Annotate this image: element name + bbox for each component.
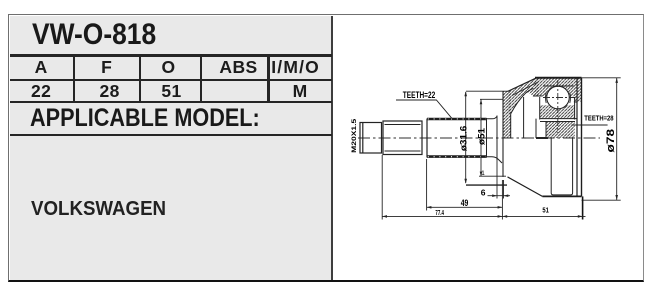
column line 2 [139,54,141,103]
shaft section [383,119,427,158]
header I/M/O [267,57,325,78]
ball centerline vertical [557,80,559,133]
label TEETH=28 [572,114,614,125]
right face hatch [577,78,582,102]
panel right divider [331,16,333,281]
svg-text:49: 49 [461,198,469,208]
threaded stub M20x1.5 [360,123,382,154]
dimension 49 [427,159,503,211]
dimension o51 [477,99,506,177]
spline shaft TEETH=22 [427,116,502,164]
column line 3 [200,54,202,103]
title VW-O-818 [32,18,156,52]
gray table panel [10,16,332,281]
inner race hatched [540,105,575,119]
svg-text:1: 1 [481,170,485,177]
dimension 51 body [502,196,585,219]
centerline [358,137,600,139]
row line under values [10,101,332,103]
row line under headers [10,79,332,81]
label APPLICABLE MODEL: [30,104,260,133]
boot groove band [551,138,572,195]
value M [270,81,331,102]
header F [75,57,139,78]
cage [533,86,577,120]
collar section hatched [503,91,511,177]
value 28 [78,81,142,102]
inner race hub hatched [546,122,575,139]
row line under applicable model [10,134,332,136]
dimension 77.4 [382,155,502,220]
svg-text:77.4: 77.4 [435,208,444,217]
row line under title [10,54,332,56]
svg-text:51: 51 [542,206,549,215]
header O [141,57,197,78]
column line 4 [267,54,269,103]
ball [547,86,570,109]
label VOLKSWAGEN [31,198,166,221]
label TEETH=22 [396,90,453,119]
svg-text:ø31.6: ø31.6 [458,126,468,152]
housing top band hatched [535,78,577,97]
bore line [522,97,527,138]
svg-text:6: 6 [481,188,486,198]
ball centerline horizontal [543,97,575,99]
svg-text:TEETH=28: TEETH=28 [584,114,613,123]
svg-text:ø78: ø78 [605,129,617,153]
value 22 [10,81,73,102]
svg-text:ø51: ø51 [477,128,487,145]
svg-text:M20X1.5: M20X1.5 [351,118,358,153]
dimension 6 [481,158,510,199]
dimension o78 [582,78,621,200]
header ABS [206,57,272,78]
column line 1 [73,54,75,103]
value 51 [144,81,200,102]
housing outline [508,78,582,197]
header A [10,57,73,78]
housing shoulder wedge hatched [508,78,539,114]
inner race lines [536,119,577,138]
svg-text:TEETH=22: TEETH=22 [403,90,435,100]
dimension o31.6 [458,91,508,185]
